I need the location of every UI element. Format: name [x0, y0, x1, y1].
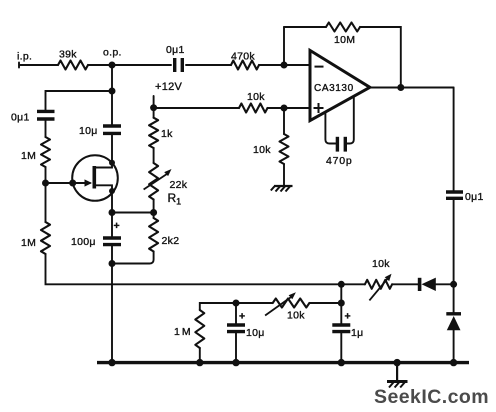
svg-text:10M: 10M: [334, 34, 355, 46]
wire 1k to pot R1: [153, 148, 155, 163]
wire bottom feedback line to pot2: [341, 283, 365, 285]
node right rail junction: [450, 281, 457, 288]
ground bus bottom: [97, 361, 469, 364]
svg-text:+12V: +12V: [155, 81, 183, 93]
label 1M lower: [21, 237, 36, 249]
node plus input junction: [281, 105, 288, 112]
svg-text:+: +: [239, 311, 245, 323]
label 0u1 top: [166, 44, 185, 56]
node o.p. junction: [109, 62, 116, 69]
wire +12V node down to 1k: [153, 108, 155, 118]
transistor Q1 drain lead: [94, 160, 115, 168]
label +12V: [155, 81, 183, 93]
node source junction: [109, 209, 116, 216]
resistor 39k: [58, 61, 88, 70]
svg-text:10μ: 10μ: [79, 125, 98, 137]
wire right rail cap to diode node: [453, 198, 455, 284]
wire plus node down to 10k: [283, 108, 285, 134]
capacitor 100u electrolytic: [103, 213, 121, 245]
ground symbol bottom: [387, 363, 408, 388]
svg-text:0μ1: 0μ1: [465, 191, 484, 203]
svg-text:10k: 10k: [247, 91, 265, 103]
wire left rail down to bottom line: [46, 254, 342, 284]
resistor 2k2: [149, 218, 158, 252]
op-amp U1 CA3130: [310, 50, 370, 120]
wire drain rail up to 10u cap: [111, 134, 113, 163]
op-amp plus sign: [314, 103, 324, 113]
wire 39k to node o.p.: [88, 64, 112, 66]
svg-text:CA3130: CA3130: [314, 83, 354, 94]
wire 10k to plus input: [268, 107, 309, 109]
transistor Q1 MOSFET body circle: [72, 155, 118, 201]
wire 1u riser: [340, 284, 342, 303]
resistor 1M bottom: [195, 310, 204, 348]
capacitor 1u electrolytic: [332, 303, 350, 363]
potentiometer 10k lower element: [273, 299, 310, 308]
wire feedback top left segment: [284, 26, 326, 28]
wire +12V to 10k input resistor: [154, 107, 239, 109]
node bottom line junction: [338, 281, 345, 288]
node bus junction diode: [450, 359, 457, 366]
svg-text:10k: 10k: [287, 310, 305, 322]
wire 1M bottom to bus: [199, 348, 201, 363]
label CA3130: [314, 83, 354, 94]
svg-text:100μ: 100μ: [71, 236, 96, 248]
svg-text:10k: 10k: [372, 258, 390, 270]
svg-text:1M: 1M: [174, 326, 193, 338]
wire cap to 1M upper: [45, 119, 47, 137]
resistor 10M feedback: [326, 23, 360, 32]
wire pot lower to 1u node: [309, 302, 341, 304]
svg-text:10μ: 10μ: [246, 327, 265, 339]
node bus junction x112: [108, 359, 115, 366]
resistor 1M lower left: [41, 222, 50, 254]
resistor 1M upper left: [41, 137, 50, 167]
svg-text:1M: 1M: [21, 150, 36, 162]
label 10k pot lower: [287, 310, 305, 322]
op-amp minus sign: [315, 66, 324, 68]
label 0u1 right: [465, 191, 484, 203]
node bus junction 1u: [338, 359, 345, 366]
transistor Q1 gate line and arrow: [73, 179, 92, 186]
wire D2 to ground bus: [453, 330, 455, 362]
wire gate node down to 1M lower: [45, 183, 47, 222]
svg-text:i.p.: i.p.: [17, 51, 32, 63]
svg-text:22k: 22k: [170, 179, 188, 191]
wire 1M to gate node: [45, 167, 47, 183]
wire 10k to ground: [283, 164, 285, 186]
svg-text:0μ1: 0μ1: [166, 44, 185, 56]
label 2k2 value: [162, 235, 180, 247]
capacitor 0u1 left: [37, 111, 55, 119]
label 39k value: [59, 49, 77, 61]
label 10u bottom value: [246, 327, 265, 339]
node bus junction 1M: [196, 359, 203, 366]
svg-text:o.p.: o.p.: [103, 47, 122, 59]
resistor 1k: [149, 118, 158, 148]
node bus junction 10u: [232, 359, 239, 366]
resistor 470k: [231, 61, 259, 70]
label 470k value: [231, 51, 255, 63]
label 10u: [79, 125, 98, 137]
node 100u bottom junction: [109, 260, 116, 267]
label 100u value: [71, 236, 96, 248]
wire 470k to inverting input: [259, 64, 309, 66]
capacitor C1 0u1 coupling: [175, 58, 183, 72]
label i.p.: [17, 51, 32, 63]
wire output down right rail: [453, 88, 455, 193]
label 1M upper: [21, 150, 36, 162]
capacitor C output 0u1 right: [446, 192, 463, 198]
capacitor 470p compensation: [337, 137, 345, 152]
node R1 bottom junction: [150, 209, 157, 216]
svg-text:1μ: 1μ: [351, 327, 364, 339]
potentiometer 10k upper bottom element: [365, 280, 392, 289]
label plus of 100u: [114, 220, 120, 232]
label 10k pot upper: [372, 258, 390, 270]
label plus of 10u bottom: [239, 311, 245, 323]
op-amp comp pin 1: [325, 113, 335, 144]
label R1 designator: [168, 191, 182, 207]
label plus of 1u: [345, 311, 351, 323]
wire 100u bottom to node: [111, 245, 113, 264]
node gate entry junction: [69, 180, 76, 187]
wire pot2 to diode D1: [392, 283, 418, 285]
wire source node to R1 bottom node: [112, 212, 154, 214]
label o.p.: [103, 47, 122, 59]
wire D1 to right rail node: [436, 283, 454, 285]
node o.p. branch junction: [109, 65, 116, 95]
transistor Q1 source lead: [94, 185, 115, 194]
diode D2 vertical: [446, 314, 461, 331]
node bus junction ground tap: [393, 359, 400, 366]
wire pot to 2k2 node: [153, 200, 155, 219]
node inverting input junction: [281, 62, 288, 69]
op-amp comp pin 8: [347, 97, 354, 144]
capacitor 10u: [103, 126, 121, 133]
transistor Q1 channel bar: [93, 166, 97, 189]
resistor 10k to ground: [280, 134, 289, 164]
label 10k row value: [247, 91, 265, 103]
wire feedback right segment and drop to output: [360, 27, 401, 88]
wire op-amp output: [370, 87, 454, 89]
label 10k vertical value: [253, 144, 271, 156]
wire C1 to 470k: [186, 64, 231, 66]
node output junction: [397, 84, 404, 91]
svg-text:SeekIC.com: SeekIC.com: [374, 386, 489, 408]
svg-text:10k: 10k: [253, 144, 271, 156]
svg-text:1k: 1k: [161, 128, 173, 140]
label 470p value: [326, 155, 353, 167]
label 10M value: [334, 34, 355, 46]
label 1u value: [351, 327, 364, 339]
wire 2k2 bottom bend to 100u node: [112, 252, 154, 264]
potentiometer R1 22k element: [149, 163, 158, 200]
power +12V stub: [153, 96, 155, 108]
wire 10u to o.p. branch: [111, 91, 113, 126]
wire input i.p. line: [19, 63, 58, 68]
svg-text:39k: 39k: [59, 49, 77, 61]
wire node down to ground bus: [111, 264, 113, 363]
label 0u1 left: [11, 112, 30, 124]
svg-text:+: +: [345, 311, 351, 323]
node +12V junction: [150, 104, 157, 111]
svg-text:+: +: [114, 220, 120, 232]
label 1k value: [161, 128, 173, 140]
svg-text:1M: 1M: [21, 237, 36, 249]
label 22k value: [170, 179, 188, 191]
resistor 10k to non-inverting input: [239, 104, 268, 113]
diode D1 horizontal: [420, 278, 436, 291]
wire gate lead: [46, 182, 73, 184]
potentiometer R1 wiper arrow: [144, 169, 172, 190]
wire source rail to source node: [111, 191, 113, 213]
node 10u bottom top junction: [233, 300, 240, 307]
watermark SeekIC.com: [374, 386, 489, 408]
node 1u top junction: [338, 300, 345, 307]
svg-text:0μ1: 0μ1: [11, 112, 30, 124]
svg-text:470k: 470k: [231, 51, 255, 63]
potentiometer 10k lower wiper arrow: [265, 292, 296, 315]
wire second bottom line: [200, 303, 273, 310]
capacitor 10u bottom electrolytic: [227, 303, 245, 363]
node gate tee junction: [42, 180, 49, 187]
svg-text:2k2: 2k2: [162, 235, 180, 247]
svg-text:470p: 470p: [326, 155, 353, 167]
wire right rail to diode D2: [453, 284, 455, 313]
label 1M bottom: [174, 326, 193, 338]
wire feedback riser: [283, 27, 285, 65]
wire o.p. to C1: [112, 64, 171, 66]
wire branch to left rail: [46, 91, 113, 111]
ground under 10k divider: [271, 186, 293, 192]
potentiometer 10k upper wiper arrow: [369, 274, 391, 301]
